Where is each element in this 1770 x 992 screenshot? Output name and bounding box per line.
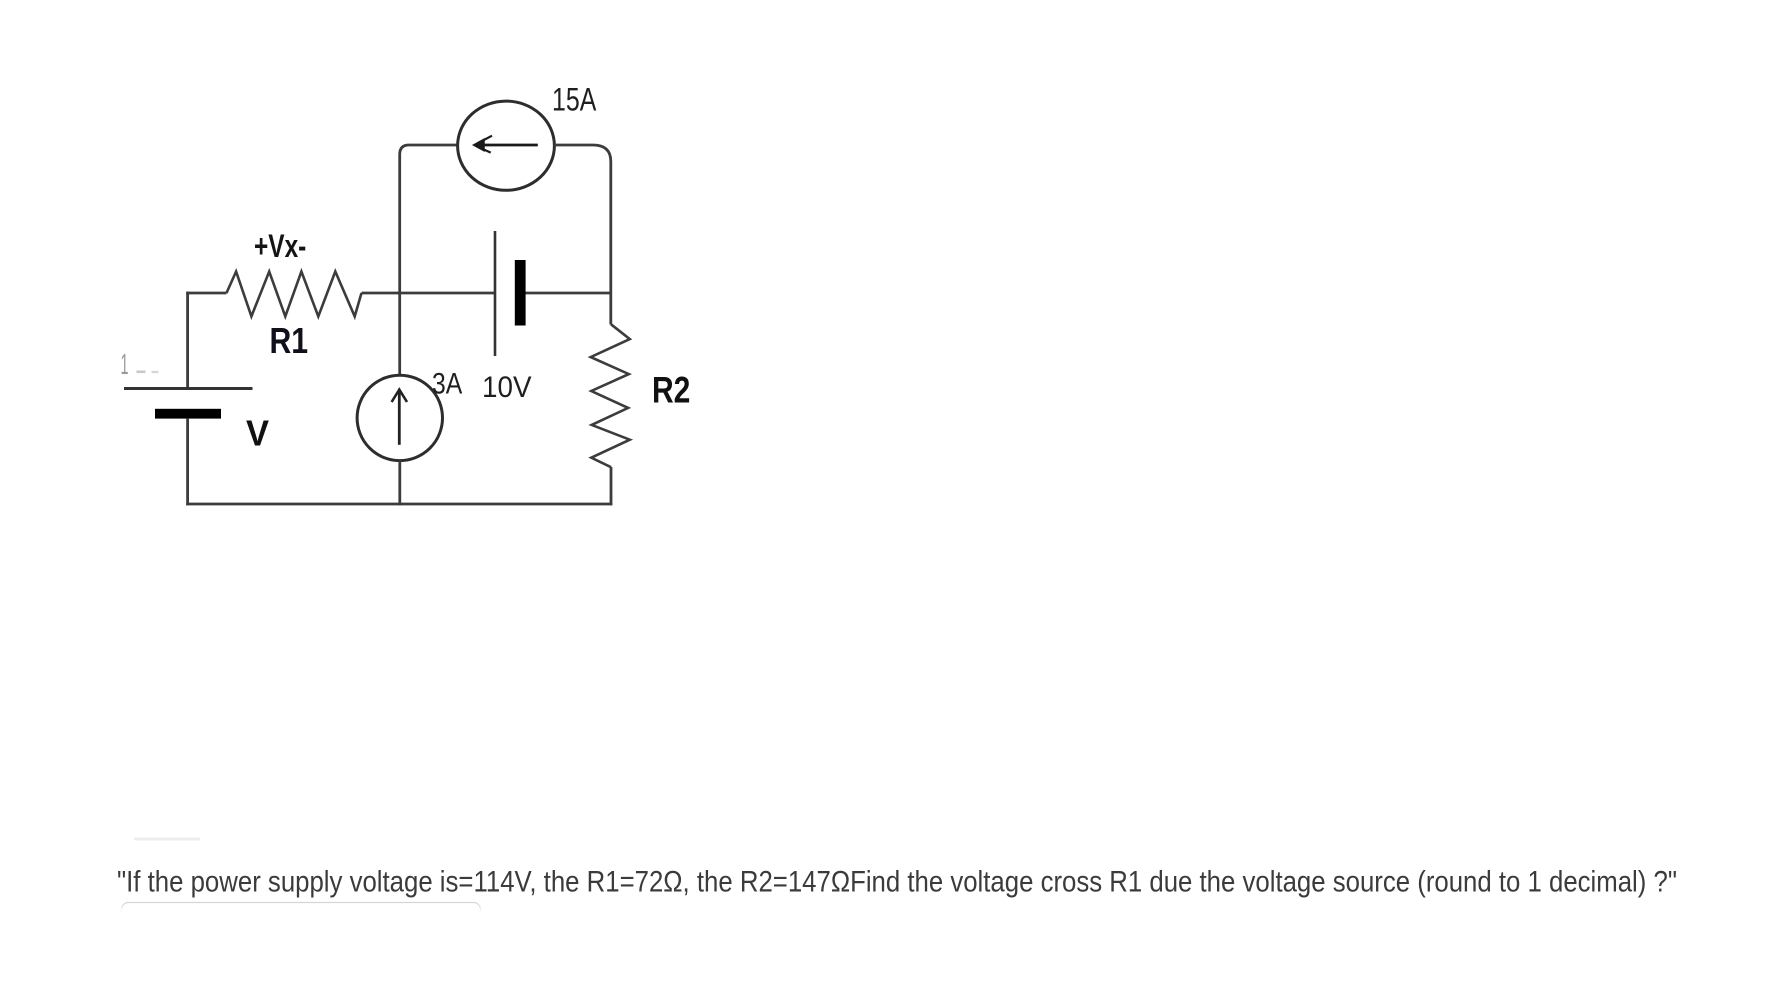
wire: R1 left lead from battery node [186,292,226,295]
svg-text:1: 1 [121,349,129,381]
wire: middle horizontal node (right of 10V battery) [525,292,613,295]
resistor R2 [591,324,630,467]
wire: top-right corner and right vertical (to R2 top) [555,145,611,325]
faint smudge mark [134,838,200,841]
wire: 3A source bottom lead [398,461,401,506]
wire: R2 bottom lead [610,467,613,505]
svg-text:3A: 3A [432,368,462,401]
svg-text:10V: 10V [482,371,532,404]
current source 15A [458,101,555,190]
wire: left vertical lower (battery V to bottom wire) [186,419,189,506]
battery V top plate (thin horizontal) [124,387,253,390]
resistor R1 [227,272,362,317]
battery 10V positive plate (thick vertical) [515,260,526,326]
svg-text:15A: 15A [552,82,597,118]
battery 10V negative plate (thin vertical) [494,231,497,356]
battery V bottom plate (thick horizontal) [155,409,221,419]
answer input box (faded) [122,903,481,948]
svg-text:"If the power supply voltage i: "If the power supply voltage is=114V, th… [117,866,1677,899]
wire: top-left corner and middle vertical (to 3A source top) [400,145,458,376]
node 1 faint artifact [121,349,159,381]
svg-text:R1: R1 [270,320,309,361]
wire: left vertical upper (node to battery V) [186,292,189,388]
svg-text:R2: R2 [652,370,690,411]
wire: bottom [186,503,612,506]
svg-text:+Vx-: +Vx- [254,228,306,264]
current source 3A [357,375,442,460]
wire: R1 right lead through middle node to 10V battery [362,292,495,295]
svg-text:V: V [246,413,269,454]
